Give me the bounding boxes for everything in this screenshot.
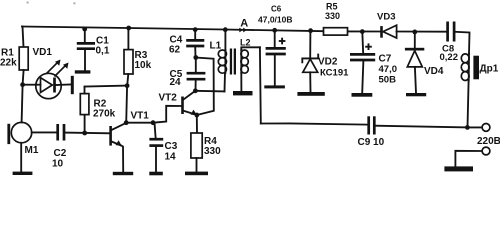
svg-text:10k: 10k xyxy=(135,60,152,71)
node C2-R2-VT1 base xyxy=(82,131,87,136)
svg-text:C7: C7 xyxy=(379,54,392,65)
node VT2 emitter xyxy=(194,113,199,118)
svg-text:62: 62 xyxy=(169,45,181,56)
paper specks xyxy=(27,2,29,4)
diode VD3 xyxy=(380,26,383,38)
svg-text:10: 10 xyxy=(52,159,64,170)
ground under L2 xyxy=(233,91,253,95)
capacitor C7 xyxy=(360,29,365,34)
svg-text:50В: 50В xyxy=(379,75,397,86)
transistor VT2 xyxy=(181,97,184,115)
ground under VT1 emitter xyxy=(113,172,133,175)
svg-text:220В: 220В xyxy=(477,136,500,147)
plus sign C6 xyxy=(279,38,286,45)
wire rail segment VD3 to C8 xyxy=(397,31,448,33)
capacitor C5 xyxy=(195,58,197,73)
svg-text:C2: C2 xyxy=(54,148,67,159)
wire C9 to 220V node xyxy=(375,126,468,128)
diode VD4 xyxy=(412,30,417,35)
node C4-C5 tap xyxy=(193,55,198,60)
ground under M1 xyxy=(13,172,33,175)
capacitor C9 xyxy=(367,116,370,134)
svg-text:330: 330 xyxy=(325,11,340,21)
wire junction down to microphone xyxy=(22,85,23,123)
ground at 220V return xyxy=(444,166,473,171)
svg-text:VD2: VD2 xyxy=(318,57,338,68)
wire tap to emitter (feedback) xyxy=(196,58,214,116)
zener diode VD2 xyxy=(308,28,313,33)
core bars L1/L2 xyxy=(230,49,232,75)
svg-text:R5: R5 xyxy=(326,2,338,12)
choke Dr1 xyxy=(461,54,469,81)
microphone M1 xyxy=(11,122,31,142)
ground under C6 xyxy=(264,85,285,88)
svg-text:C9 10: C9 10 xyxy=(358,137,385,148)
svg-text:270k: 270k xyxy=(93,109,116,120)
svg-text:L1: L1 xyxy=(210,41,222,52)
plus sign C7 xyxy=(365,43,372,50)
svg-text:VD3: VD3 xyxy=(377,12,395,23)
wire R2 top to R3 bottom node xyxy=(85,86,128,87)
ground under VD2 xyxy=(297,92,324,96)
terminal 220V top xyxy=(467,126,481,128)
LED emission arrows xyxy=(47,62,67,77)
wire VT1 emitter to ground xyxy=(121,145,123,171)
resistor R3 xyxy=(126,26,131,31)
svg-text:47,0: 47,0 xyxy=(379,64,398,75)
svg-text:VD1: VD1 xyxy=(33,47,53,58)
svg-text:C3: C3 xyxy=(165,141,178,152)
wire bottom line to C9 xyxy=(261,123,367,124)
wire microphone to C2 xyxy=(32,131,57,133)
svg-text:47,0/10В: 47,0/10В xyxy=(258,15,293,25)
wire C3 node to VT2 base xyxy=(153,106,181,123)
ground under C7 xyxy=(352,93,373,97)
wire junction to LED xyxy=(23,84,36,86)
ground under C3 xyxy=(149,172,163,176)
resistor R5 xyxy=(324,28,348,35)
wire rail segment R5 to VD3 xyxy=(348,30,382,32)
capacitor C8 xyxy=(446,22,449,42)
svg-text:КС191: КС191 xyxy=(320,68,349,79)
inductor L1 xyxy=(223,27,228,32)
svg-text:M1: M1 xyxy=(25,145,39,156)
wire node down to VT1 collector xyxy=(125,86,128,123)
wire L2 top down to bottom line xyxy=(259,47,262,123)
svg-text:L2: L2 xyxy=(240,38,251,48)
resistor R2 xyxy=(84,115,86,134)
capacitor C4 xyxy=(193,27,198,32)
wire top supply rail left segment xyxy=(22,27,324,32)
svg-text:VT2: VT2 xyxy=(159,93,178,104)
capacitor C2 xyxy=(56,124,59,141)
wire VT1 collector node to C3 node xyxy=(126,122,153,124)
svg-text:14: 14 xyxy=(165,152,177,163)
LED VD1 xyxy=(36,73,61,98)
node R1-VD1-M1 junction xyxy=(20,82,25,87)
wire microphone to ground xyxy=(20,143,22,172)
ground under C1 xyxy=(75,70,91,73)
svg-text:330: 330 xyxy=(204,146,221,157)
VD1 cathode end bar xyxy=(71,76,74,94)
svg-text:0,22: 0,22 xyxy=(440,52,459,63)
svg-text:0,1: 0,1 xyxy=(96,46,110,57)
node R3-R2-collector xyxy=(125,83,130,88)
wire C2 to base node xyxy=(64,132,110,135)
capacitor C1 xyxy=(82,27,87,32)
capacitor C3 xyxy=(155,123,156,139)
node VT2 collector xyxy=(193,88,198,93)
wire VT2 collector to L1 bottom xyxy=(195,90,224,93)
svg-text:VT1: VT1 xyxy=(131,111,150,122)
svg-text:24: 24 xyxy=(170,77,182,88)
node C3 top xyxy=(151,120,156,125)
wire rail segment C8 to right corner, down to choke xyxy=(455,32,470,54)
resistor R1 xyxy=(23,27,24,48)
terminal 220V bottom xyxy=(482,147,490,155)
inductor L2 xyxy=(241,47,260,50)
svg-text:C6: C6 xyxy=(271,5,282,14)
resistor R4 xyxy=(196,115,198,133)
svg-text:22k: 22k xyxy=(0,58,17,69)
capacitor C6 xyxy=(272,28,277,33)
ground under R4 xyxy=(185,172,208,176)
svg-text:A: A xyxy=(240,18,248,30)
transistor VT1 xyxy=(109,126,112,146)
node 220V top xyxy=(465,125,470,130)
svg-text:VD4: VD4 xyxy=(424,66,444,77)
svg-text:Др1: Др1 xyxy=(480,64,499,75)
ground under VD4 xyxy=(406,93,426,96)
